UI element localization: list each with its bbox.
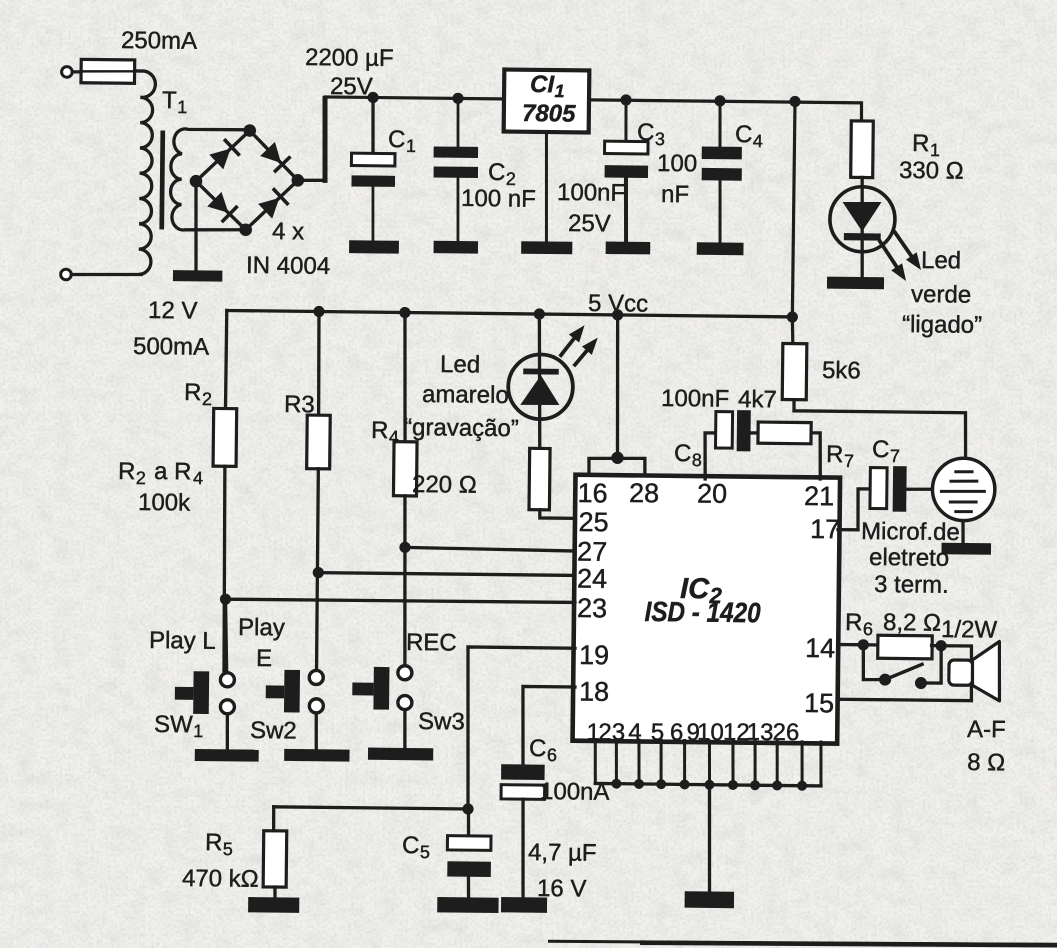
svg-text:nF: nF bbox=[661, 181, 689, 208]
svg-text:4: 4 bbox=[628, 719, 642, 746]
svg-text:2: 2 bbox=[598, 719, 612, 746]
svg-text:5: 5 bbox=[223, 839, 233, 859]
svg-text:R: R bbox=[912, 130, 930, 157]
svg-text:27: 27 bbox=[577, 537, 607, 567]
svg-text:2: 2 bbox=[136, 468, 146, 488]
svg-text:4: 4 bbox=[389, 427, 399, 447]
svg-text:5k6: 5k6 bbox=[822, 357, 861, 384]
svg-text:T: T bbox=[162, 87, 177, 114]
svg-text:100k: 100k bbox=[138, 489, 191, 517]
svg-text:1/2W: 1/2W bbox=[941, 616, 998, 644]
svg-text:20: 20 bbox=[697, 478, 727, 508]
svg-text:16 V: 16 V bbox=[537, 875, 587, 903]
svg-text:16: 16 bbox=[577, 478, 607, 508]
svg-text:7: 7 bbox=[890, 446, 900, 466]
svg-text:17: 17 bbox=[810, 514, 840, 544]
svg-text:25V: 25V bbox=[330, 73, 373, 100]
svg-text:1: 1 bbox=[555, 81, 565, 101]
svg-text:220 Ω: 220 Ω bbox=[412, 471, 477, 499]
svg-text:10: 10 bbox=[697, 719, 724, 746]
svg-text:C: C bbox=[637, 119, 655, 146]
svg-text:REC: REC bbox=[406, 629, 457, 657]
svg-text:R: R bbox=[118, 458, 136, 485]
svg-text:Microf.de: Microf.de bbox=[861, 518, 960, 546]
svg-text:4,7 µF: 4,7 µF bbox=[528, 839, 597, 867]
svg-text:R: R bbox=[205, 829, 223, 856]
svg-text:8,2 Ω: 8,2 Ω bbox=[883, 609, 941, 637]
svg-text:100nA: 100nA bbox=[540, 778, 610, 806]
svg-text:18: 18 bbox=[579, 676, 609, 706]
svg-text:C: C bbox=[402, 832, 420, 859]
svg-text:A-F: A-F bbox=[967, 716, 1006, 743]
svg-text:28: 28 bbox=[629, 478, 659, 508]
svg-text:1: 1 bbox=[193, 721, 203, 741]
svg-text:Sw2: Sw2 bbox=[250, 717, 297, 745]
svg-text:4: 4 bbox=[753, 131, 763, 151]
svg-text:Led: Led bbox=[440, 351, 480, 378]
svg-text:Play L: Play L bbox=[149, 627, 216, 655]
svg-text:8: 8 bbox=[692, 450, 702, 470]
svg-text:C: C bbox=[735, 121, 753, 148]
svg-text:5: 5 bbox=[420, 842, 430, 862]
svg-text:19: 19 bbox=[579, 640, 609, 670]
svg-text:Play: Play bbox=[238, 614, 285, 642]
svg-text:4 x: 4 x bbox=[272, 218, 304, 245]
svg-text:100: 100 bbox=[657, 150, 697, 177]
svg-text:5: 5 bbox=[651, 719, 665, 746]
svg-text:250mA: 250mA bbox=[121, 27, 197, 55]
svg-text:4: 4 bbox=[193, 468, 203, 488]
svg-text:R: R bbox=[184, 379, 202, 406]
svg-text:C: C bbox=[488, 159, 506, 186]
svg-text:Sw3: Sw3 bbox=[418, 708, 465, 736]
svg-text:24: 24 bbox=[577, 564, 607, 594]
svg-text:14: 14 bbox=[805, 633, 835, 663]
svg-text:100 nF: 100 nF bbox=[461, 185, 536, 213]
svg-text:eletreto: eletreto bbox=[869, 544, 949, 572]
svg-text:C: C bbox=[388, 126, 406, 153]
svg-text:R: R bbox=[845, 609, 863, 636]
svg-text:3: 3 bbox=[612, 719, 626, 746]
svg-text:“ligado”: “ligado” bbox=[902, 311, 982, 339]
svg-text:100nF: 100nF bbox=[557, 179, 625, 207]
svg-text:SW: SW bbox=[154, 711, 193, 738]
svg-text:4k7: 4k7 bbox=[738, 386, 777, 413]
svg-text:C: C bbox=[529, 735, 547, 762]
svg-text:IN 4004: IN 4004 bbox=[246, 252, 330, 280]
svg-text:21: 21 bbox=[804, 481, 834, 511]
svg-text:R: R bbox=[826, 441, 844, 468]
svg-text:ISD - 1420: ISD - 1420 bbox=[644, 596, 761, 628]
svg-text:3: 3 bbox=[655, 129, 665, 149]
svg-text:5 Vcc: 5 Vcc bbox=[588, 290, 648, 318]
svg-text:verde: verde bbox=[911, 281, 971, 309]
svg-text:23: 23 bbox=[577, 593, 607, 623]
svg-text:2200 µF: 2200 µF bbox=[305, 44, 394, 72]
svg-text:100nF: 100nF bbox=[661, 385, 729, 413]
svg-text:470 kΩ: 470 kΩ bbox=[182, 865, 259, 893]
svg-text:26: 26 bbox=[772, 719, 799, 746]
svg-text:C: C bbox=[674, 440, 692, 467]
svg-text:6: 6 bbox=[863, 619, 873, 639]
svg-text:7805: 7805 bbox=[522, 100, 576, 128]
svg-text:R: R bbox=[371, 417, 389, 444]
svg-text:a R: a R bbox=[154, 458, 192, 485]
svg-text:1: 1 bbox=[406, 136, 416, 156]
svg-text:25V: 25V bbox=[568, 210, 611, 237]
svg-text:C: C bbox=[872, 436, 890, 463]
svg-text:15: 15 bbox=[804, 688, 834, 718]
svg-text:E: E bbox=[256, 645, 272, 672]
svg-text:1: 1 bbox=[177, 97, 187, 117]
svg-text:330 Ω: 330 Ω bbox=[899, 157, 964, 185]
svg-text:3 term.: 3 term. bbox=[874, 571, 949, 599]
svg-text:13: 13 bbox=[747, 719, 774, 746]
svg-text:8 Ω: 8 Ω bbox=[967, 749, 1005, 776]
svg-text:12 V: 12 V bbox=[148, 297, 198, 325]
svg-text:2: 2 bbox=[202, 389, 212, 409]
svg-text:6: 6 bbox=[547, 745, 557, 765]
svg-text:Led: Led bbox=[921, 247, 961, 274]
svg-text:“gravação”: “gravação” bbox=[404, 414, 519, 442]
svg-text:7: 7 bbox=[844, 451, 854, 471]
svg-text:R3: R3 bbox=[284, 391, 315, 418]
svg-text:25: 25 bbox=[578, 507, 608, 537]
svg-text:500mA: 500mA bbox=[133, 333, 209, 361]
svg-text:CI: CI bbox=[530, 71, 556, 98]
svg-text:amarelo: amarelo bbox=[422, 381, 509, 409]
svg-text:6: 6 bbox=[670, 719, 684, 746]
